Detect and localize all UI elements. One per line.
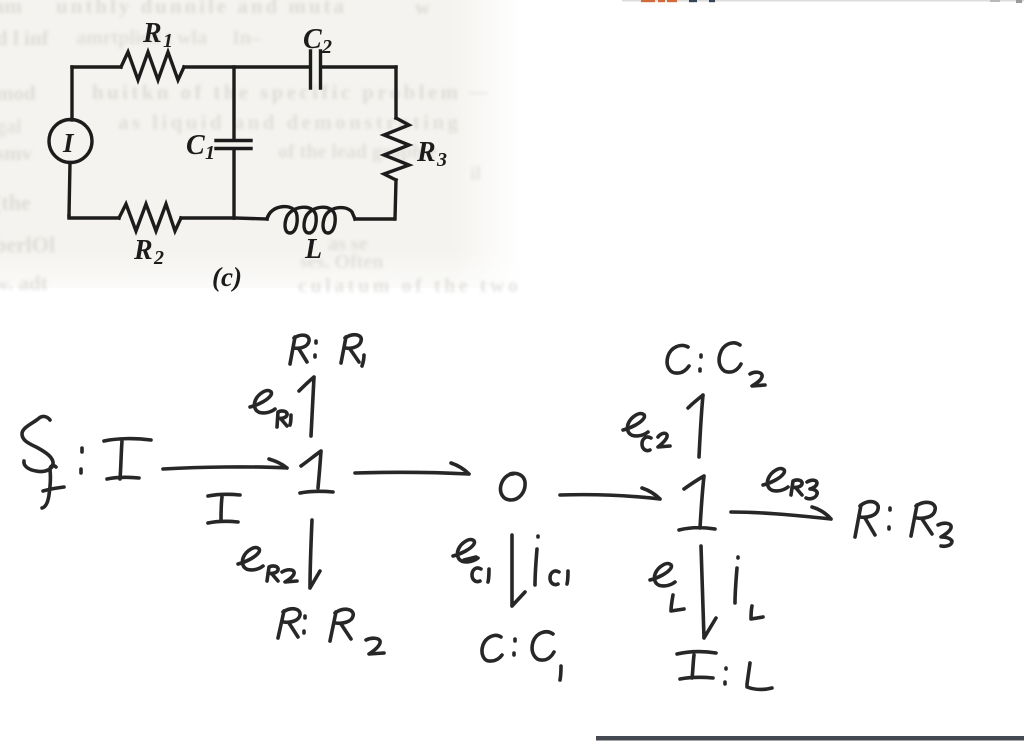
wire: left vertical upper xyxy=(70,67,73,120)
label eR1 xyxy=(250,391,291,427)
svg-text:berlOl: berlOl xyxy=(0,232,55,257)
wire: middle vertical upper (node to C1) xyxy=(232,67,235,139)
capacitor C1 plates xyxy=(216,141,251,149)
subscript f xyxy=(42,466,64,508)
resistor R3 xyxy=(384,118,409,180)
bond 0 down to C:C1 xyxy=(512,535,525,606)
label eC2 xyxy=(623,414,670,451)
wire: R2 to center junction xyxy=(181,216,234,219)
wire: middle vertical lower (C1 to bottom junction) xyxy=(232,150,235,218)
node Sf:I source label xyxy=(22,416,151,508)
wire: left vertical lower xyxy=(69,163,70,217)
wire: C2 to top-right corner xyxy=(322,65,396,68)
bond Sf->1 xyxy=(163,459,287,469)
svg-text:L: L xyxy=(304,234,322,265)
svg-text:d l inf: d l inf xyxy=(0,26,50,50)
node R:R2 xyxy=(278,609,384,654)
svg-text:2: 2 xyxy=(321,36,332,58)
svg-text:R: R xyxy=(416,137,436,168)
node R:R3 xyxy=(855,502,952,547)
node C:C2 xyxy=(667,343,765,386)
svg-text:am: am xyxy=(0,0,23,18)
svg-text:(the: (the xyxy=(0,190,31,215)
resistor R1 xyxy=(121,52,184,80)
ghost bleed-through text rows xyxy=(0,0,518,297)
wire: top-left corner to R1 xyxy=(72,65,121,68)
svg-text:C: C xyxy=(186,130,205,161)
circuit schematic, printed xyxy=(49,51,409,233)
bottom dark bar xyxy=(596,736,1024,741)
wire: inductor to bottom-right corner xyxy=(355,217,394,220)
BOND GRAPH (hand-drawn) xyxy=(22,335,952,690)
svg-text:C: C xyxy=(303,24,322,55)
colon xyxy=(81,448,82,473)
svg-text:mod: mod xyxy=(0,81,36,105)
label eR3 xyxy=(763,469,817,499)
bond 1 to 0 xyxy=(355,463,469,474)
wire: right vertical lower xyxy=(395,180,396,219)
scanned paper background xyxy=(0,0,522,310)
label eL xyxy=(650,564,684,611)
wire: bottom-left corner to R2 xyxy=(69,216,119,218)
bond 1 up to R:R1 xyxy=(299,377,314,436)
bond 1 down to I:L xyxy=(701,546,716,638)
node 1 (left junction) xyxy=(300,451,333,493)
label eR2 xyxy=(238,548,297,582)
S xyxy=(22,416,53,471)
label iL xyxy=(735,557,763,619)
node R:R1 xyxy=(290,335,364,366)
bond 1 up to C:C2 xyxy=(688,395,703,457)
svg-text:(c): (c) xyxy=(212,262,242,292)
label eC1 xyxy=(453,540,489,582)
inductor L xyxy=(267,207,355,233)
svg-text:of the lead graph e: of the lead graph e xyxy=(278,141,437,163)
resistor R2 xyxy=(119,204,181,231)
svg-text:R: R xyxy=(142,18,162,49)
svg-text:—: — xyxy=(467,81,489,103)
bond 1 to R:R3 xyxy=(731,507,831,519)
node I:L xyxy=(677,652,772,690)
current source I circle xyxy=(49,120,92,163)
svg-text:R: R xyxy=(133,235,153,266)
circuit labels xyxy=(62,18,447,292)
svg-text:unthly dunnile and muta: unthly dunnile and muta xyxy=(56,0,345,18)
I xyxy=(104,439,151,479)
svg-text:w: w xyxy=(415,0,431,19)
svg-text:2: 2 xyxy=(153,247,164,269)
wire: R1 to C2 left plate xyxy=(184,65,309,68)
wire: center junction to inductor xyxy=(234,218,267,219)
node 1 (right junction) xyxy=(679,476,715,530)
flow label I under bond xyxy=(208,494,240,523)
node C:C1 xyxy=(482,632,561,680)
svg-text:huitkn of the specific problem: huitkn of the specific problem xyxy=(92,80,459,104)
label iC1 xyxy=(535,536,568,585)
svg-text:gal: gal xyxy=(0,116,22,138)
svg-text:I: I xyxy=(62,128,75,158)
svg-text:3: 3 xyxy=(436,149,447,171)
capacitor C2 plates xyxy=(311,51,321,88)
bond 0 to 1 xyxy=(560,488,660,499)
svg-text:il: il xyxy=(470,163,482,185)
top edge UI sliver xyxy=(622,0,1024,3)
wire: right vertical upper xyxy=(394,67,397,118)
svg-text:1: 1 xyxy=(163,30,173,52)
bond 1 down to R:R2 xyxy=(310,520,320,588)
svg-text:w. adt: w. adt xyxy=(0,271,48,295)
svg-text:smv: smv xyxy=(0,141,33,165)
svg-text:1: 1 xyxy=(205,142,215,164)
node 0 xyxy=(500,473,525,500)
